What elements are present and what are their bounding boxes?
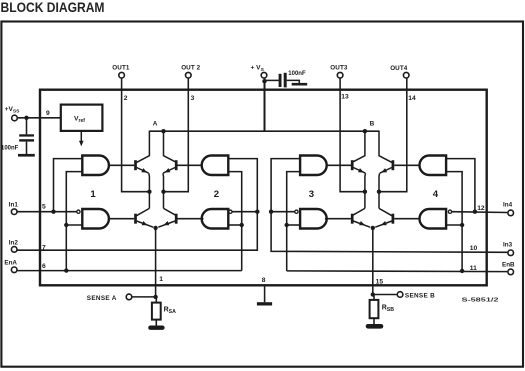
capacitor 100nF (logic supply) [19,134,34,136]
svg-text:3: 3 [309,189,314,200]
EnB terminal [508,269,514,275]
wire pin 8 ground stub [264,287,266,303]
AND gate 4 upper [420,156,447,176]
junction OUT4 node [377,190,381,194]
svg-text:S-5851/2: S-5851/2 [462,298,499,304]
ground (RSB) [366,324,384,329]
capacitor 100nF (supply bypass) [279,74,282,87]
wire In3 pin 10 to gate 3 upper input [271,159,507,253]
svg-text:OUT3: OUT3 [330,65,348,72]
transistor Q2 base [134,214,137,224]
transistor Q7 base (upper right) [392,160,395,170]
junction OUT2 node [161,190,165,194]
+Vs terminal [261,72,267,78]
wire cap to ground (left) [26,142,28,154]
svg-text:In3: In3 [503,242,513,249]
svg-text:12: 12 [477,205,485,212]
svg-text:A: A [153,121,158,128]
wire gate 2 upper output to Q3 base [177,164,203,166]
svg-text:OUT1: OUT1 [112,65,130,72]
wire sense node to RSA [155,297,157,303]
wire EnB riser to gate 3 inputs [287,172,300,271]
wire EnA riser to gate 2 inputs [228,172,241,271]
wire OUT2 pin to bridge A right column [187,79,189,192]
svg-text:14: 14 [408,95,416,102]
transistor Q8 collector (lower right) [379,208,392,215]
junction +Vss cap tap [24,116,28,120]
wire EnA to gate 2 lower input [228,224,241,226]
svg-text:In4: In4 [503,201,513,208]
AND gate 1 lower [82,209,109,229]
junction sense A node [153,295,157,299]
OUT3 terminal [337,72,343,78]
AND gate 4 lower [420,209,447,229]
wire EnB to gate 3 lower input [287,224,300,226]
transistor Q3 base (upper right) [175,160,178,170]
wire Q7 emitter to OUT4 node [378,173,381,208]
wire In4 riser to gate 4 upper input [446,159,475,212]
junction In4 riser [473,210,477,214]
wire OUT4 pin to bridge B right column [406,79,408,192]
svg-text:6: 6 [42,263,46,270]
wire bridge A funnel right [164,131,177,162]
svg-text:4: 4 [433,189,439,200]
wire +Vs rail to bridge B [265,130,380,132]
junction EnA gate1 riser [64,268,68,272]
junction EnA gate1 lower input [64,223,68,227]
svg-text:BLOCK DIAGRAM: BLOCK DIAGRAM [1,0,105,15]
junction bridge B emitters (pin 15 node) [371,226,375,230]
wire cap to ground [287,80,300,83]
junction EnA gate2 lower input [240,223,244,227]
wire gate 3 upper output to Q5 base [326,164,352,166]
AND gate 2 upper [202,156,229,176]
wire gate 1 lower output to Q2 base [108,218,134,220]
ground (RSA) [148,326,164,330]
AND gate 1 upper [82,156,109,176]
junction bridge A emitters (pin 1 node) [153,226,157,230]
wire EnB riser to gate 4 inputs [446,172,462,271]
wire gate 4 lower output to Q8 base [394,218,420,220]
wire EnA to gate 1 lower input [66,224,82,226]
transistor Q4 emitter [158,221,175,227]
svg-text:1: 1 [159,276,163,283]
inverter bubble gate 4 [448,210,451,213]
Vref output arrow [80,131,82,141]
svg-text:OUT4: OUT4 [390,65,408,72]
EnA terminal [11,267,17,273]
resistor RSA [152,303,161,320]
svg-text:1: 1 [90,189,96,200]
wire In4 pin 12 [452,211,508,214]
wire sense node to RSB [373,295,375,301]
wire In3 to gate 3 lower inverting input [271,211,295,213]
junction +Vs cap tap [262,79,266,83]
svg-text:EnB: EnB [502,262,515,269]
Vref block U1 [61,105,103,131]
junction node B [363,129,367,133]
SENSE B terminal [397,292,403,298]
inverter bubble gate 1 [77,210,80,213]
ground (left 100nF cap) [18,154,35,157]
junction OUT3 node [363,190,367,194]
In2 terminal [11,247,17,253]
svg-text:100nF: 100nF [1,145,19,151]
junction EnB gate4 lower input [460,223,464,227]
transistor Q8 emitter [375,221,392,227]
wire gate 3 lower output to Q6 base [325,218,351,220]
svg-text:2: 2 [214,189,219,200]
wire gate 2 lower output to Q4 base [178,218,204,220]
wire bridge B funnel right [379,131,392,162]
OUT4 terminal [403,72,409,78]
transistor Q3 emitter [163,168,175,174]
svg-text:3: 3 [191,95,195,102]
transistor Q6 emitter [353,221,370,227]
svg-text:2: 2 [124,95,128,102]
wire Q3 emitter to OUT2 node [162,173,165,208]
transistor Q4 collector (lower right) [164,208,177,215]
junction In1 riser [51,210,55,214]
transistor Q1 emitter [137,168,149,174]
wire sense A [132,296,155,298]
wire OUT3 pin to bridge B left column [339,79,341,192]
junction EnB gate3 lower input [285,223,289,227]
transistor Q8 base [392,214,395,224]
AND gate 3 upper [300,156,327,176]
wire EnB pin 11 [287,270,508,273]
OUT1 terminal [119,72,125,78]
transistor Q1 base (upper left) [134,160,137,170]
wire +Vs pin down to rail [264,79,266,132]
resistor RSB [370,300,379,318]
wire RSA to ground [155,320,157,326]
wire RSB to ground [373,318,375,324]
wire Q5 emitter to OUT3 node [364,173,367,208]
wire In1 riser to gate 1 upper input [54,159,83,212]
SENSE A terminal [126,294,132,300]
transistor Q5 base (upper left) [351,160,354,170]
AND gate 2 lower [202,209,229,229]
svg-text:15: 15 [376,278,384,285]
ground (pin 8) [257,302,272,305]
svg-text:9: 9 [46,110,50,117]
wire Q1 emitter to OUT1 node [148,173,151,208]
svg-text:In1: In1 [9,201,19,208]
wire +Vs rail to bridge A [149,130,264,132]
wire +Vss to 100nF cap [26,118,28,135]
AND gate 3 lower [300,209,327,229]
inverter bubble gate 2 [229,210,232,213]
transistor Q6 base [351,214,354,224]
In3 terminal [508,250,514,256]
wire OUT1 pin to bridge A left column [121,79,123,192]
wire EnA riser to gate 1 inputs [66,172,82,271]
svg-text:In2: In2 [9,240,19,247]
wire sense B [373,294,397,296]
IC block outline [40,90,487,286]
svg-text:EnA: EnA [4,260,17,267]
OUT2 terminal [186,72,192,78]
transistor Q7 emitter [380,168,392,174]
svg-text:OUT 2: OUT 2 [181,65,200,72]
junction EnB gate4 riser [460,269,464,273]
wire In1 pin 5 [18,211,77,213]
junction In2 inverter tap [255,210,259,214]
svg-text:100nF: 100nF [288,71,306,77]
In1 terminal [11,209,17,215]
svg-text:5: 5 [42,204,46,211]
svg-text:B: B [370,121,375,128]
svg-text:13: 13 [341,93,349,100]
svg-text:10: 10 [470,245,478,252]
wire In2 pin 7 to gate 2 upper input [18,159,258,251]
transistor Q2 emitter [137,221,154,227]
wire gate 1 upper output to Q1 base [108,164,134,166]
wire EnB to gate 4 lower input [446,224,462,226]
svg-text:8: 8 [262,277,266,284]
junction node A [161,129,165,133]
inverter bubble gate 3 [295,210,298,213]
wire +Vs to 100nF cap [265,79,279,81]
junction sense B node [371,292,375,296]
svg-text:SENSE B: SENSE B [405,293,435,300]
wire In2 to gate 2 lower inverting input [232,211,257,213]
+Vss terminal [12,115,18,121]
wire EnA pin 6 [18,270,242,272]
svg-text:SENSE A: SENSE A [87,295,117,302]
transistor Q2 collector (lower left) [136,208,149,215]
transistor Q6 collector (lower left) [352,208,365,215]
wire pin 1 sense A column [155,228,157,297]
wire pin 15 sense B column [372,228,374,295]
transistor Q5 emitter [353,168,365,174]
transistor Q4 base [175,214,178,224]
junction OUT1 node [147,190,151,194]
In4 terminal [508,210,514,216]
wire +Vss pin 9 to Vref [18,117,61,119]
wire gate 4 upper output to Q7 base [394,164,420,166]
wire bridge A funnel left [136,131,149,162]
wire bridge B funnel left [352,131,365,162]
junction In3 inverter tap [269,210,273,214]
ground (100nF top cap) [292,83,308,86]
